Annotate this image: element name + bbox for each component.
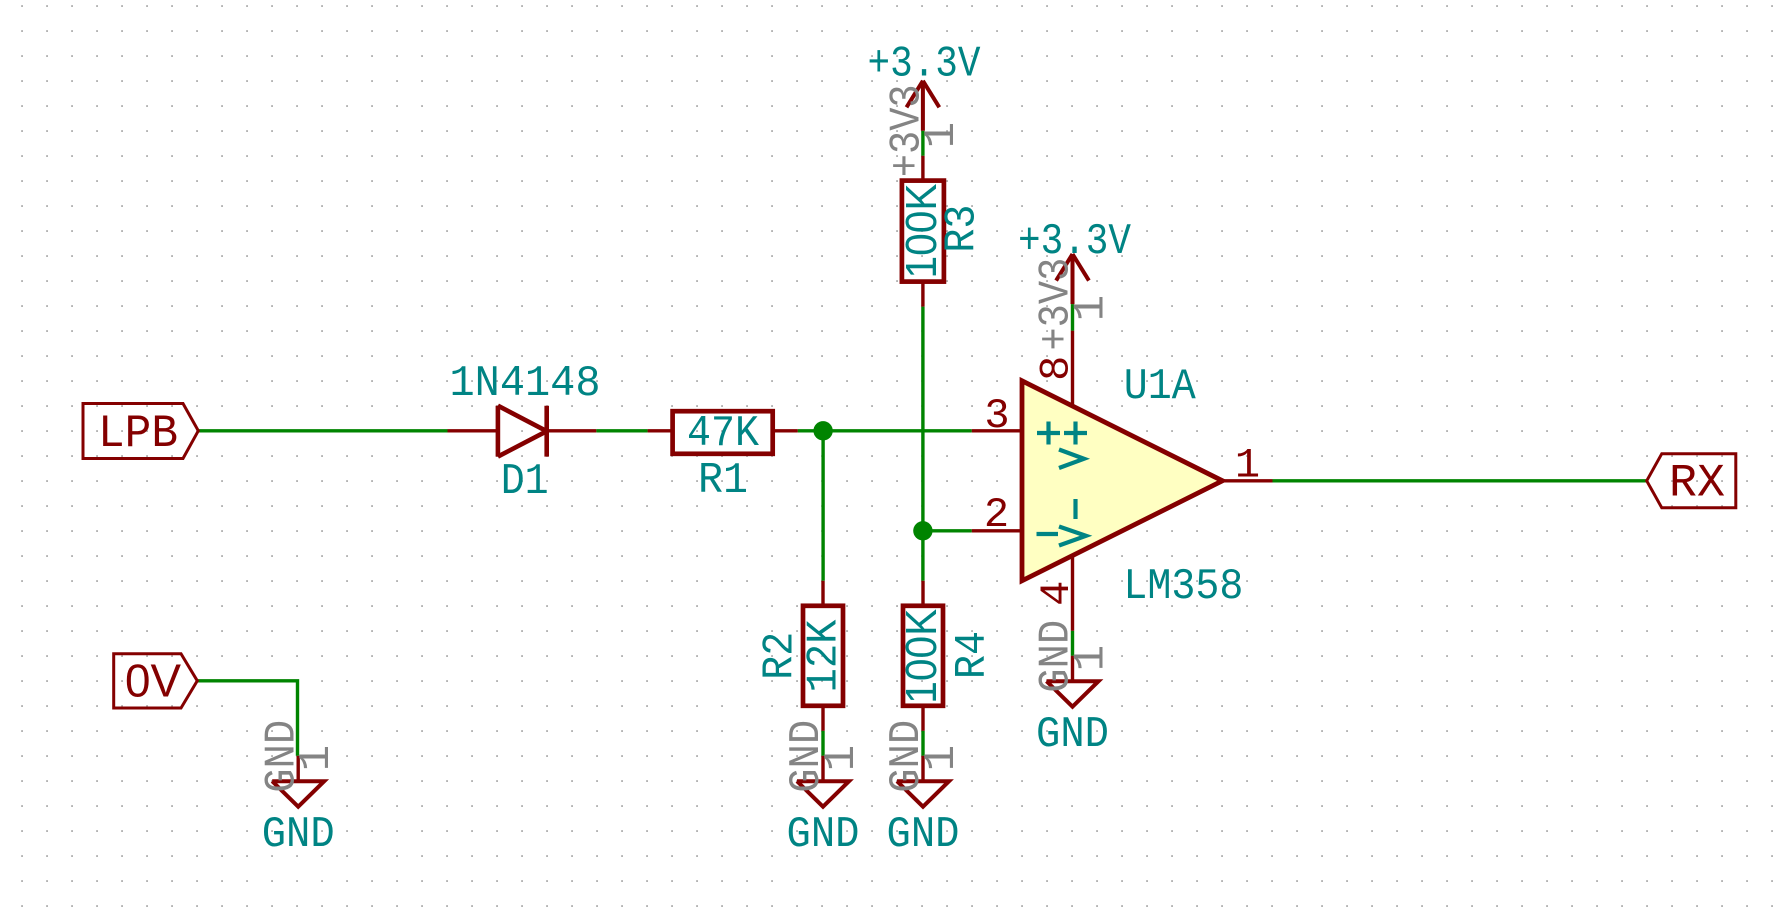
svg-text:1: 1 bbox=[1067, 645, 1117, 671]
svg-text:8: 8 bbox=[1033, 356, 1081, 381]
svg-text:RX: RX bbox=[1669, 458, 1725, 510]
svg-text:LM358: LM358 bbox=[1123, 562, 1243, 612]
svg-text:GND: GND bbox=[262, 810, 335, 860]
svg-text:100K: 100K bbox=[897, 609, 946, 704]
svg-text:1: 1 bbox=[1067, 295, 1117, 321]
svg-text:GND: GND bbox=[887, 810, 960, 860]
svg-text:+3.3V: +3.3V bbox=[868, 40, 982, 90]
svg-text:R2: R2 bbox=[756, 632, 806, 680]
svg-text:1N4148: 1N4148 bbox=[450, 359, 601, 409]
svg-text:12K: 12K bbox=[800, 619, 850, 693]
svg-text:LPB: LPB bbox=[98, 408, 178, 460]
svg-text:47K: 47K bbox=[687, 409, 760, 459]
svg-text:1: 1 bbox=[1235, 442, 1260, 490]
svg-text:GND: GND bbox=[787, 810, 860, 860]
svg-text:D1: D1 bbox=[501, 457, 549, 507]
svg-text:0V: 0V bbox=[125, 655, 181, 707]
svg-text:1: 1 bbox=[917, 745, 967, 771]
svg-text:4: 4 bbox=[1033, 581, 1081, 606]
svg-text:GND: GND bbox=[1036, 710, 1109, 760]
svg-text:U1A: U1A bbox=[1124, 362, 1197, 412]
svg-text:R4: R4 bbox=[948, 631, 998, 679]
svg-text:3: 3 bbox=[984, 392, 1009, 440]
svg-text:R1: R1 bbox=[698, 456, 748, 506]
svg-text:1: 1 bbox=[292, 745, 342, 771]
svg-text:2: 2 bbox=[984, 491, 1009, 539]
svg-text:R3: R3 bbox=[938, 205, 988, 253]
svg-text:1: 1 bbox=[817, 745, 867, 771]
svg-text:1: 1 bbox=[917, 122, 967, 148]
